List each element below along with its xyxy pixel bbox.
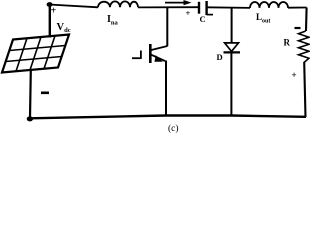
wire diode branch upper bbox=[231, 7, 233, 43]
wire bottom rail bbox=[30, 116, 306, 119]
capacitor C bbox=[199, 1, 207, 15]
resistor R bbox=[299, 31, 310, 63]
arrow current direction bbox=[165, 0, 192, 5]
wire top from node A to L1 bbox=[49, 5, 98, 8]
diode D bbox=[224, 43, 241, 53]
wire diode branch lower bbox=[230, 53, 232, 116]
svg-text:(c): (c) bbox=[168, 123, 179, 134]
wire right rail lower bbox=[304, 62, 305, 117]
svg-text:+: + bbox=[51, 6, 57, 17]
inductor L1 bbox=[98, 1, 138, 7]
node B junction dot bottom bbox=[27, 116, 33, 121]
label - (load minus) bbox=[295, 27, 301, 29]
PV panel PV1 bbox=[2, 35, 69, 73]
node A junction dot bbox=[47, 2, 53, 7]
transistor Q1 emitter wire bbox=[165, 61, 167, 116]
label - (PV minus) bbox=[41, 92, 49, 95]
svg-text:R: R bbox=[284, 38, 291, 48]
wire Lout to right rail bbox=[288, 7, 307, 9]
transistor Q1 collector riser wire bbox=[166, 7, 168, 46]
wire C to Lout bbox=[207, 6, 250, 9]
wire PV bottom terminal bbox=[29, 71, 32, 119]
svg-text:Ina: Ina bbox=[107, 14, 119, 27]
transistor Q1 IGBT bbox=[132, 44, 167, 63]
wire PV top terminal bbox=[49, 4, 51, 38]
svg-text:Lout: Lout bbox=[256, 12, 270, 25]
svg-text:D: D bbox=[217, 52, 223, 62]
svg-text:C: C bbox=[200, 14, 206, 24]
svg-text:Vdc: Vdc bbox=[57, 22, 71, 34]
svg-text:+: + bbox=[186, 8, 191, 18]
label - (capacitor minus) bbox=[207, 14, 214, 16]
wire L1 to capacitor C bbox=[138, 6, 199, 8]
inductor Lout bbox=[250, 2, 288, 8]
wire right rail upper bbox=[305, 8, 308, 32]
svg-text:+: + bbox=[292, 70, 297, 80]
